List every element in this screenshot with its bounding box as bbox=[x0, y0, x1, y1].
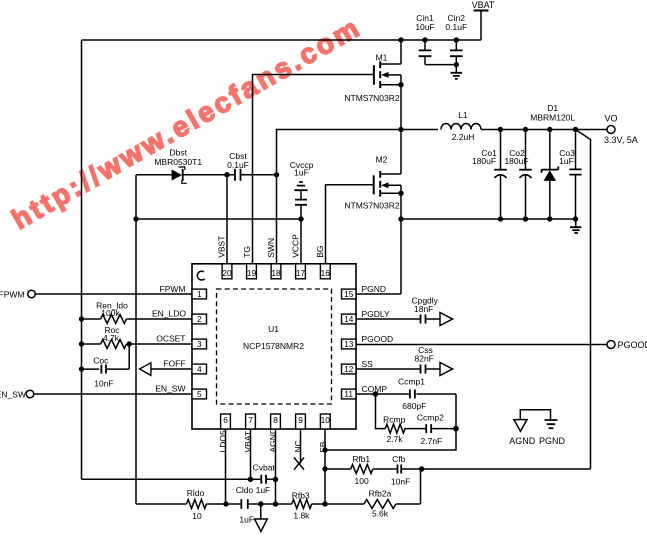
svg-text:19: 19 bbox=[247, 268, 257, 278]
svg-text:180uF: 180uF bbox=[472, 156, 496, 166]
svg-text:2.2uH: 2.2uH bbox=[452, 132, 475, 142]
svg-text:0.1uF: 0.1uF bbox=[227, 160, 249, 170]
svg-text:FPWM: FPWM bbox=[0, 289, 25, 299]
svg-text:17: 17 bbox=[296, 268, 306, 278]
svg-text:TG: TG bbox=[242, 246, 252, 258]
svg-text:12: 12 bbox=[344, 364, 354, 374]
svg-text:16: 16 bbox=[321, 268, 331, 278]
svg-text:Rfb1: Rfb1 bbox=[352, 454, 370, 464]
svg-text:3.3V, 5A: 3.3V, 5A bbox=[604, 135, 638, 145]
svg-text:AGND: AGND bbox=[268, 428, 278, 453]
svg-text:1uF: 1uF bbox=[239, 514, 254, 524]
svg-text:100k: 100k bbox=[101, 308, 120, 318]
svg-text:M1: M1 bbox=[376, 53, 388, 63]
svg-text:3: 3 bbox=[197, 339, 202, 349]
svg-text:1: 1 bbox=[197, 289, 202, 299]
svg-text:82nF: 82nF bbox=[415, 353, 434, 363]
svg-text:PGDLY: PGDLY bbox=[362, 309, 391, 319]
svg-text:VBST: VBST bbox=[217, 236, 227, 258]
svg-text:FPWM: FPWM bbox=[160, 284, 186, 294]
svg-text:10: 10 bbox=[192, 511, 202, 521]
svg-text:Ccmp1: Ccmp1 bbox=[398, 377, 425, 387]
svg-text:15: 15 bbox=[344, 289, 354, 299]
svg-text:18: 18 bbox=[271, 268, 281, 278]
svg-text:2.7k: 2.7k bbox=[387, 434, 404, 444]
svg-text:20: 20 bbox=[222, 268, 232, 278]
svg-text:NC: NC bbox=[293, 440, 303, 452]
svg-text:BG: BG bbox=[315, 246, 325, 258]
svg-text:Coc: Coc bbox=[93, 356, 109, 366]
svg-text:FB: FB bbox=[318, 441, 328, 452]
svg-text:VO: VO bbox=[604, 114, 617, 124]
svg-text:Ccmp2: Ccmp2 bbox=[417, 413, 444, 423]
svg-text:Cfb: Cfb bbox=[392, 454, 406, 464]
svg-text:14: 14 bbox=[344, 314, 354, 324]
svg-text:PGND: PGND bbox=[362, 284, 387, 294]
svg-text:4.7k: 4.7k bbox=[103, 333, 120, 343]
svg-text:10nF: 10nF bbox=[94, 378, 113, 388]
svg-text:VBAT: VBAT bbox=[243, 431, 253, 453]
svg-text:6: 6 bbox=[223, 415, 228, 425]
svg-text:FOFF: FOFF bbox=[163, 358, 185, 368]
svg-text:10nF: 10nF bbox=[391, 477, 410, 487]
svg-text:5.6k: 5.6k bbox=[372, 509, 389, 519]
svg-text:Cldo 1uF: Cldo 1uF bbox=[236, 485, 271, 495]
svg-text:180uF: 180uF bbox=[504, 156, 528, 166]
svg-text:2.7nF: 2.7nF bbox=[421, 436, 443, 446]
svg-text:9: 9 bbox=[298, 415, 303, 425]
svg-text:13: 13 bbox=[344, 339, 354, 349]
svg-text:5: 5 bbox=[197, 389, 202, 399]
svg-text:M2: M2 bbox=[376, 154, 388, 164]
svg-text:Cvbat: Cvbat bbox=[253, 463, 276, 473]
svg-text:L1: L1 bbox=[458, 110, 468, 120]
svg-text:4: 4 bbox=[197, 364, 202, 374]
svg-text:EN_LDO: EN_LDO bbox=[152, 308, 186, 318]
svg-text:7: 7 bbox=[248, 415, 253, 425]
svg-text:MBR0530T1: MBR0530T1 bbox=[154, 157, 202, 167]
svg-text:18nF: 18nF bbox=[414, 304, 433, 314]
svg-text:SWN: SWN bbox=[266, 238, 276, 258]
svg-text:1uF: 1uF bbox=[559, 156, 574, 166]
svg-text:SS: SS bbox=[362, 359, 374, 369]
svg-text:100: 100 bbox=[355, 476, 369, 486]
svg-text:1uF: 1uF bbox=[294, 167, 309, 177]
svg-text:NTMS7N03R2: NTMS7N03R2 bbox=[344, 201, 400, 211]
svg-text:AGND: AGND bbox=[509, 436, 536, 446]
svg-text:EN_SW: EN_SW bbox=[155, 383, 185, 393]
svg-text:11: 11 bbox=[344, 389, 353, 399]
svg-text:LDO5: LDO5 bbox=[218, 430, 228, 452]
svg-text:U1: U1 bbox=[268, 324, 279, 334]
svg-text:680pF: 680pF bbox=[402, 401, 426, 411]
svg-text:0.1uF: 0.1uF bbox=[445, 22, 467, 32]
svg-text:PGOOD: PGOOD bbox=[618, 340, 647, 350]
svg-text:10uF: 10uF bbox=[415, 22, 434, 32]
svg-text:OCSET: OCSET bbox=[156, 333, 185, 343]
svg-text:VBAT: VBAT bbox=[472, 0, 495, 10]
svg-text:VCCP: VCCP bbox=[291, 234, 301, 258]
svg-text:MBRM120L: MBRM120L bbox=[530, 113, 575, 123]
svg-text:Rcmp: Rcmp bbox=[383, 415, 405, 425]
svg-text:PGOOD: PGOOD bbox=[362, 334, 394, 344]
svg-text:8: 8 bbox=[273, 415, 278, 425]
svg-text:EN_SW: EN_SW bbox=[0, 389, 26, 399]
svg-text:2: 2 bbox=[197, 314, 202, 324]
svg-text:NCP1578NMR2: NCP1578NMR2 bbox=[243, 341, 304, 351]
svg-text:COMP: COMP bbox=[362, 384, 388, 394]
svg-text:10: 10 bbox=[321, 415, 331, 425]
svg-text:1.8k: 1.8k bbox=[293, 511, 310, 521]
svg-text:Rfb2a: Rfb2a bbox=[369, 489, 392, 499]
svg-text:PGND: PGND bbox=[539, 436, 566, 446]
svg-text:Rldo: Rldo bbox=[187, 488, 205, 498]
svg-text:Rfb3: Rfb3 bbox=[292, 491, 310, 501]
svg-text:NTMS7N03R2: NTMS7N03R2 bbox=[344, 93, 400, 103]
